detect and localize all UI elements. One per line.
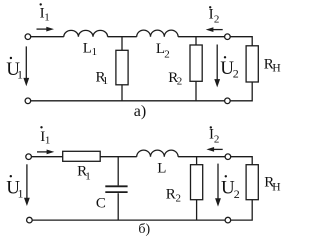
current arrow I2 (a) bbox=[206, 27, 223, 32]
wire L2 to terminal (a) bbox=[178, 36, 225, 38]
wire L to terminal (b) bbox=[178, 156, 225, 158]
svg-text:I2: I2 bbox=[209, 127, 219, 146]
wire bottom (b) bbox=[32, 219, 225, 221]
terminal bottom-right (a) bbox=[225, 98, 231, 104]
voltage arrow U1 (a) bbox=[23, 46, 29, 86]
svg-text:RH: RH bbox=[264, 56, 281, 74]
node stub C junction (b) bbox=[117, 157, 119, 186]
svg-text:C: C bbox=[96, 196, 106, 212]
inductor L2 bbox=[137, 30, 178, 37]
terminal bottom-right (b) bbox=[225, 217, 231, 223]
capacitor C bbox=[105, 186, 127, 192]
node stub R2 junction (b) bbox=[196, 157, 198, 165]
svg-text:RH: RH bbox=[264, 175, 280, 194]
wire RH bottom stub (a) bbox=[230, 82, 252, 101]
current arrow I1 (a) bbox=[37, 27, 55, 32]
svg-text:а): а) bbox=[134, 103, 146, 120]
wire top-left (a) bbox=[31, 36, 64, 38]
voltage arrow U2 (b) bbox=[215, 164, 221, 207]
svg-text:R2: R2 bbox=[166, 187, 181, 205]
wire R2 bottom stub (a) bbox=[195, 81, 197, 101]
wire top-left (b) bbox=[32, 156, 63, 158]
wire R1 to C junction (b) bbox=[100, 156, 137, 158]
svg-text:R1: R1 bbox=[77, 164, 91, 183]
terminal top-left (a) bbox=[25, 34, 31, 40]
inductor L (b) bbox=[137, 150, 178, 157]
svg-text:R2: R2 bbox=[168, 70, 182, 88]
terminal bottom-left (a) bbox=[25, 98, 31, 104]
resistor RH (a) bbox=[246, 46, 258, 82]
node stub R2 junction (a) bbox=[195, 37, 197, 45]
svg-text:L: L bbox=[157, 161, 166, 177]
voltage arrow U1 (b) bbox=[24, 164, 30, 206]
wire terminal to RH (a) bbox=[230, 37, 252, 46]
wire RH bottom stub (b) bbox=[231, 200, 252, 220]
svg-text:L2: L2 bbox=[156, 41, 170, 60]
svg-text:I1: I1 bbox=[40, 6, 50, 24]
terminal top-right (b) bbox=[225, 154, 231, 160]
svg-text:U1: U1 bbox=[6, 178, 23, 201]
current arrow I1 (b) bbox=[37, 150, 54, 155]
svg-text:U2: U2 bbox=[221, 178, 240, 201]
resistor R2 (b) bbox=[191, 165, 203, 200]
terminal bottom-left (b) bbox=[27, 217, 33, 223]
wire bottom (a) bbox=[31, 100, 225, 102]
resistor R1 bbox=[116, 50, 128, 85]
wire C bottom stub bbox=[117, 193, 119, 220]
svg-text:I1: I1 bbox=[40, 129, 50, 147]
svg-text:I2: I2 bbox=[209, 7, 220, 26]
terminal top-right (a) bbox=[225, 34, 231, 40]
svg-text:R1: R1 bbox=[96, 69, 109, 87]
resistor RH (b) bbox=[246, 165, 258, 200]
resistor R1 (b) bbox=[63, 151, 100, 161]
wire terminal to RH (b) bbox=[231, 157, 252, 165]
current arrow I2 (b) bbox=[206, 147, 222, 152]
svg-text:б): б) bbox=[138, 222, 150, 237]
node stub L1/R1 junction (a) bbox=[121, 37, 123, 51]
terminal top-left (b) bbox=[26, 154, 32, 160]
wire between L1 and L2 (a) bbox=[108, 36, 137, 38]
wire R1 bottom stub bbox=[121, 85, 123, 101]
svg-text:L1: L1 bbox=[83, 40, 97, 58]
svg-text:U1: U1 bbox=[6, 59, 23, 82]
inductor L1 bbox=[64, 30, 108, 36]
voltage arrow U2 (a) bbox=[214, 45, 220, 88]
resistor R2 (a) bbox=[190, 45, 202, 81]
svg-text:U2: U2 bbox=[220, 58, 239, 81]
wire R2 bottom stub (b) bbox=[196, 200, 198, 220]
